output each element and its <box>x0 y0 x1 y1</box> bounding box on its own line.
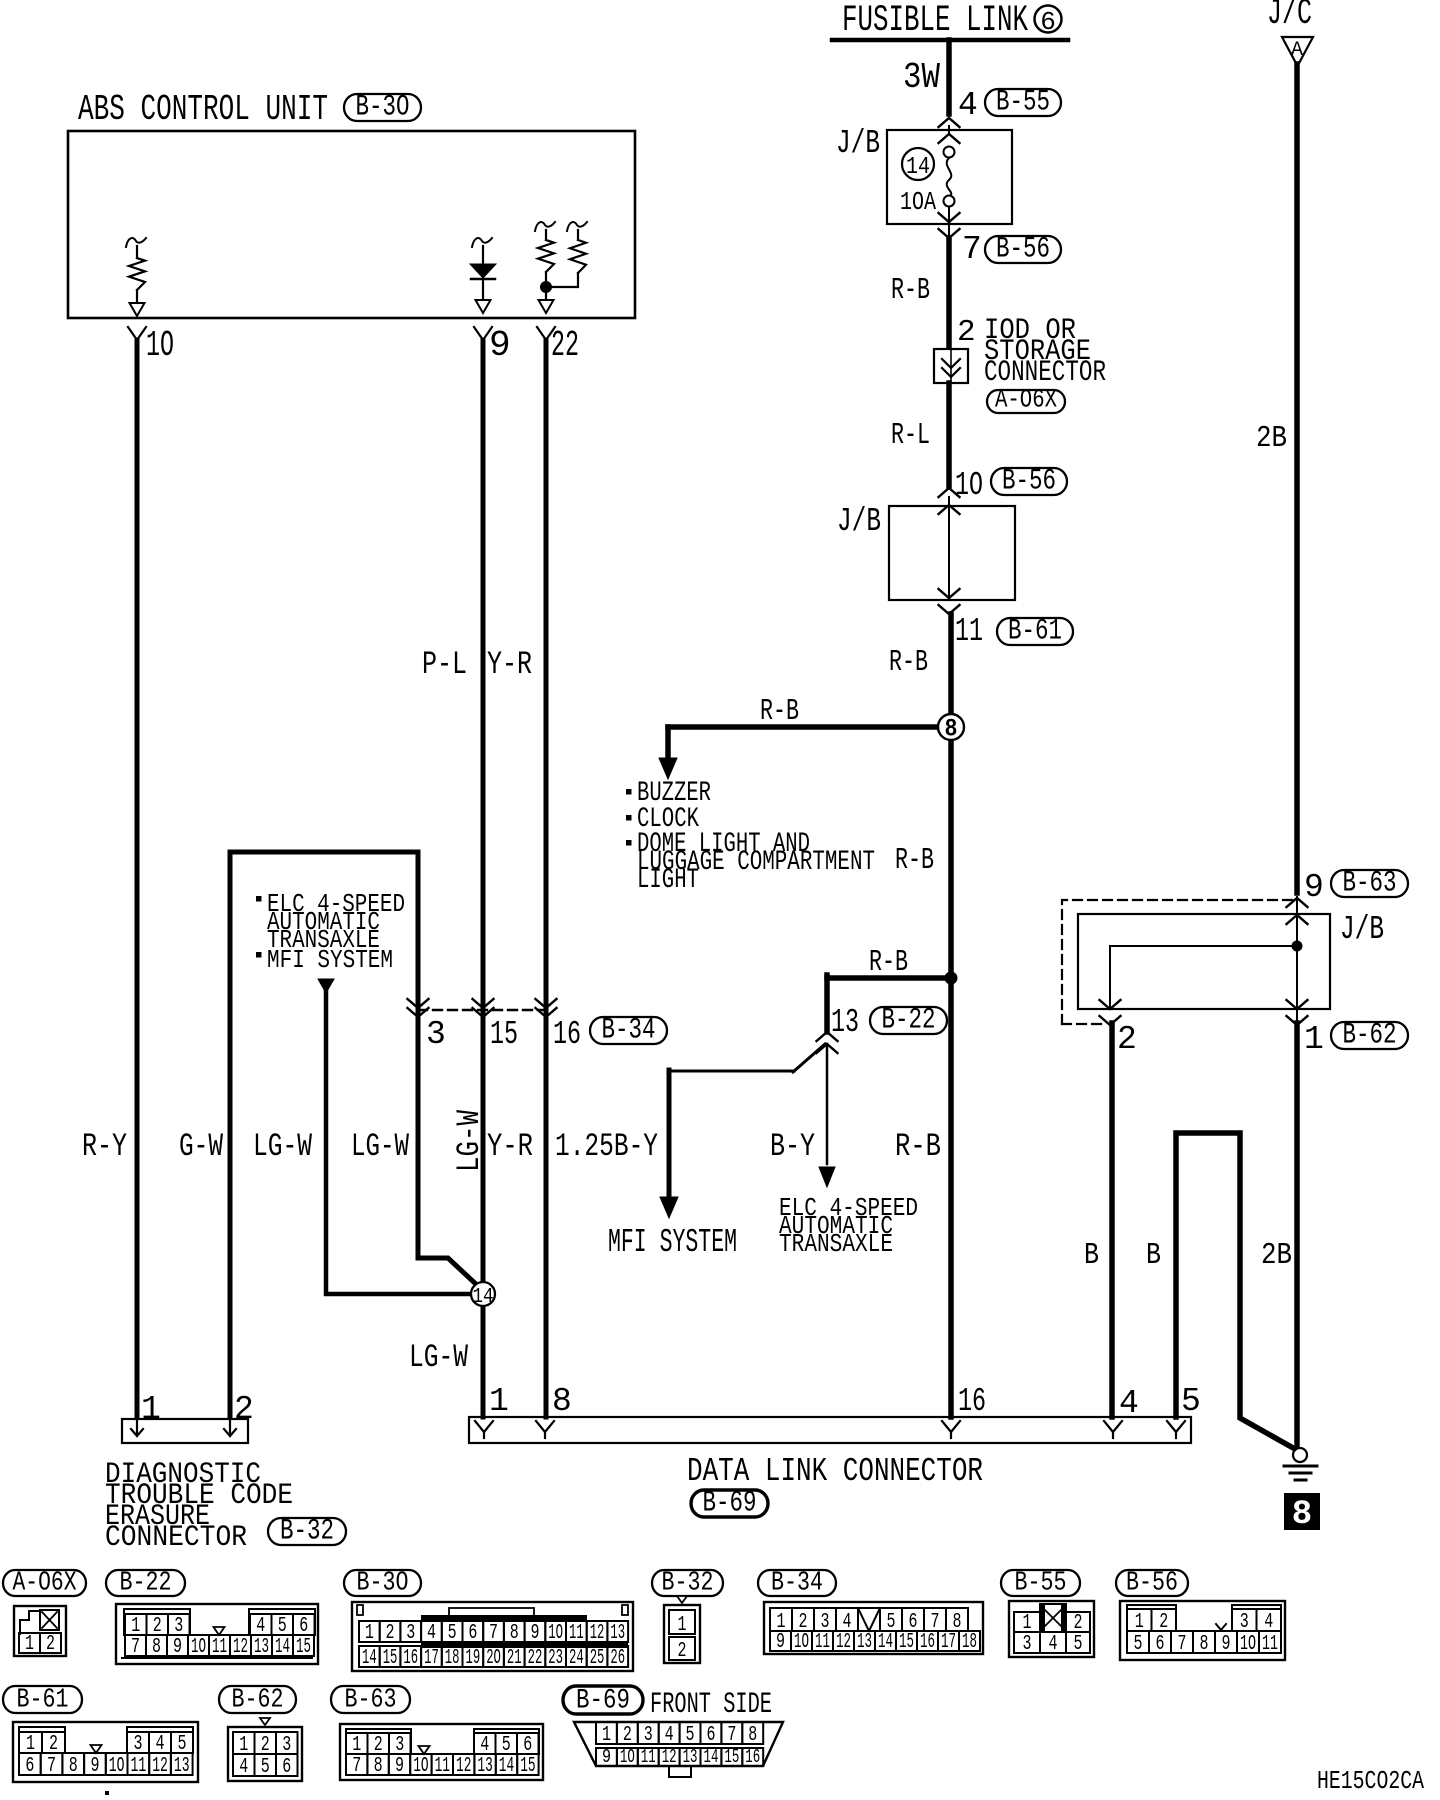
svg-text:R-B: R-B <box>895 843 934 878</box>
svg-text:15: 15 <box>724 1746 739 1768</box>
svg-text:HE15CO2CA: HE15CO2CA <box>1317 1766 1424 1796</box>
svg-text:5: 5 <box>1074 1633 1083 1656</box>
svg-text:B-56: B-56 <box>1126 1569 1178 1599</box>
connector callout B-32 <box>268 1518 346 1545</box>
svg-text:1OA: 1OA <box>900 187 936 217</box>
main vertical wire R-B to data link connector pin 16 <box>948 614 954 1417</box>
svg-text:26: 26 <box>610 1647 625 1670</box>
svg-text:R-B: R-B <box>891 273 930 308</box>
svg-text:B-69: B-69 <box>703 1487 757 1521</box>
svg-text:2: 2 <box>386 1622 395 1645</box>
svg-text:B-3O: B-3O <box>357 1569 409 1599</box>
ground point number 8 <box>1284 1493 1320 1530</box>
svg-text:8: 8 <box>69 1755 78 1778</box>
svg-text:J/C: J/C <box>1267 0 1312 34</box>
pinout B-56 callout <box>1116 1570 1188 1596</box>
pinout A-06X connector <box>14 1606 66 1656</box>
svg-text:16: 16 <box>958 1383 986 1420</box>
junction block J/B third <box>1078 914 1330 1009</box>
svg-text:1O: 1O <box>955 467 983 504</box>
connector B-61 pin 11 <box>939 589 960 598</box>
diode inside ABS pin 9 <box>472 238 492 247</box>
svg-text:4: 4 <box>427 1622 436 1645</box>
ELC MFI source list <box>256 896 262 902</box>
svg-text:B-22: B-22 <box>120 1569 172 1599</box>
wire R-L <box>946 383 952 487</box>
svg-text:9: 9 <box>90 1755 99 1778</box>
wire R-B <box>946 238 952 350</box>
svg-text:7: 7 <box>489 1622 498 1645</box>
connector callout B-30 <box>344 94 421 121</box>
diagnostic trouble code erasure connector box <box>122 1419 248 1443</box>
svg-text:13: 13 <box>174 1755 190 1778</box>
svg-text:B-22: B-22 <box>882 1004 936 1038</box>
connector B-63 pin 9 <box>1287 898 1308 907</box>
svg-text:5: 5 <box>448 1622 457 1645</box>
stray dot <box>105 1791 109 1795</box>
svg-text:4: 4 <box>958 87 978 124</box>
svg-text:11: 11 <box>569 1622 584 1645</box>
ground symbol <box>1293 1448 1307 1462</box>
svg-text:15: 15 <box>520 1755 535 1778</box>
svg-text:3W: 3W <box>903 57 940 98</box>
svg-text:CONNECTOR: CONNECTOR <box>105 1521 247 1555</box>
pinout B-30 callout <box>344 1570 421 1596</box>
svg-text:1O: 1O <box>548 1622 563 1645</box>
fuse 14 circle label <box>902 148 934 180</box>
svg-text:3: 3 <box>1023 1633 1032 1656</box>
svg-text:9: 9 <box>1304 869 1324 906</box>
svg-text:DATA LINK CONNECTOR: DATA LINK CONNECTOR <box>687 1453 983 1490</box>
svg-text:22: 22 <box>528 1647 543 1670</box>
branch wire R-B to buzzer clock dome light <box>668 724 939 730</box>
svg-text:LG-W: LG-W <box>409 1339 469 1376</box>
svg-text:6: 6 <box>468 1622 477 1645</box>
svg-text:22: 22 <box>551 325 579 366</box>
svg-text:2: 2 <box>678 1640 687 1663</box>
svg-text:9: 9 <box>173 1636 182 1659</box>
svg-text:B-63: B-63 <box>1343 867 1397 901</box>
svg-text:2: 2 <box>1117 1021 1137 1058</box>
svg-text:1.25B-Y: 1.25B-Y <box>555 1128 658 1165</box>
data link connector box <box>469 1417 1191 1443</box>
svg-text:1: 1 <box>365 1622 374 1645</box>
svg-text:13: 13 <box>610 1622 625 1645</box>
svg-text:LIGHT: LIGHT <box>637 865 699 896</box>
svg-text:2: 2 <box>234 1391 254 1428</box>
svg-text:13: 13 <box>254 1636 269 1659</box>
svg-text:B-34: B-34 <box>602 1014 656 1048</box>
svg-text:A-O6X: A-O6X <box>995 385 1057 415</box>
svg-text:14: 14 <box>499 1755 514 1778</box>
svg-text:3: 3 <box>426 1016 446 1053</box>
connector callout B-22 <box>870 1007 947 1034</box>
svg-text:21: 21 <box>507 1647 522 1670</box>
connector B-34 pin 3 <box>408 999 429 1008</box>
connector B-55 pin 4 <box>939 118 960 127</box>
connector B-62 pin 2 chevrons <box>1100 1000 1121 1009</box>
svg-text:B-32: B-32 <box>662 1569 714 1599</box>
connector B-34 pin 16 <box>536 999 557 1008</box>
svg-text:MFI SYSTEM: MFI SYSTEM <box>608 1224 737 1261</box>
svg-text:17: 17 <box>941 1631 956 1654</box>
wire 2B from J/C <box>1294 64 1300 893</box>
svg-text:11: 11 <box>212 1636 227 1659</box>
svg-text:6: 6 <box>282 1756 291 1779</box>
load list buzzer clock dome light <box>626 789 632 795</box>
connector callout A-06X <box>987 390 1065 413</box>
svg-text:5: 5 <box>1181 1383 1201 1420</box>
svg-text:6: 6 <box>25 1755 34 1778</box>
pinout B-22 callout <box>106 1570 185 1596</box>
svg-text:A-O6X: A-O6X <box>13 1569 77 1599</box>
svg-text:B-34: B-34 <box>771 1569 823 1599</box>
svg-text:1: 1 <box>141 1391 161 1428</box>
junction circle 14 <box>471 1282 495 1306</box>
connector callout B-55 <box>985 89 1061 116</box>
svg-text:B: B <box>1084 1238 1099 1273</box>
svg-text:13: 13 <box>857 1631 872 1654</box>
svg-text:5: 5 <box>1134 1633 1143 1656</box>
branch wire R-B to connector B-22 pin 13 <box>827 975 951 981</box>
svg-text:2B: 2B <box>1261 1238 1292 1273</box>
svg-text:4: 4 <box>1049 1633 1058 1656</box>
svg-text:1O: 1O <box>1240 1633 1256 1656</box>
ABS pin 9 <box>474 327 492 340</box>
connector callout B-34 <box>590 1017 667 1044</box>
svg-text:19: 19 <box>466 1647 481 1670</box>
pinout B-61 callout <box>3 1686 82 1713</box>
svg-text:1O: 1O <box>191 1636 206 1659</box>
connector B-56 pin 10 <box>939 488 960 497</box>
connector B-56 pin 7 <box>948 207 950 238</box>
svg-text:16: 16 <box>920 1631 935 1654</box>
wire P-L from ABS pin 9 <box>481 340 486 1417</box>
pinout B-61 connector <box>13 1722 198 1782</box>
svg-text:9: 9 <box>395 1755 404 1778</box>
wire 2B from J/B pin 1 to ground <box>1294 1023 1300 1448</box>
junction block J/B second <box>889 506 1015 600</box>
pinout B-62 callout <box>219 1686 296 1713</box>
pinout B-69 callout <box>563 1686 643 1714</box>
junction dot inside J/B <box>1292 941 1303 952</box>
svg-text:12: 12 <box>590 1622 605 1645</box>
svg-text:15: 15 <box>296 1636 311 1659</box>
svg-text:B-62: B-62 <box>1343 1019 1397 1053</box>
pinout B-69 connector <box>574 1722 783 1766</box>
svg-text:25: 25 <box>590 1647 605 1670</box>
svg-text:11: 11 <box>955 613 983 650</box>
pinout B-62 connector <box>228 1727 302 1781</box>
arrow to buzzer circuits <box>665 727 671 762</box>
svg-text:4: 4 <box>239 1756 248 1779</box>
svg-text:12: 12 <box>662 1746 677 1768</box>
svg-text:R-B: R-B <box>895 1128 941 1165</box>
pinout B-34 callout <box>758 1570 836 1596</box>
connector callout B-56 <box>985 236 1061 263</box>
svg-text:13: 13 <box>683 1746 698 1768</box>
svg-text:R-B: R-B <box>760 694 799 729</box>
pinout B-55 callout <box>1001 1570 1080 1596</box>
fusible link bus bar <box>832 38 1068 43</box>
svg-text:1O: 1O <box>146 325 174 366</box>
svg-text:14: 14 <box>362 1647 377 1670</box>
pinout B-30 connector <box>352 1602 633 1671</box>
svg-text:R-L: R-L <box>891 418 930 453</box>
wire B from J/B pin 2 to data link pin 4 <box>1109 1023 1115 1417</box>
svg-text:11: 11 <box>1262 1633 1278 1656</box>
svg-text:1O: 1O <box>413 1755 428 1778</box>
svg-text:1: 1 <box>489 1383 509 1420</box>
connector B-34 dashed line <box>418 1009 545 1011</box>
svg-text:8: 8 <box>152 1636 161 1659</box>
svg-text:J/B: J/B <box>836 125 880 162</box>
wire R-Y from ABS pin 10 <box>135 340 140 1417</box>
svg-text:1O: 1O <box>794 1631 809 1654</box>
svg-text:15: 15 <box>899 1631 914 1654</box>
svg-text:24: 24 <box>569 1647 584 1670</box>
pinout B-56 connector <box>1120 1601 1285 1660</box>
svg-text:2B: 2B <box>1256 421 1287 456</box>
svg-text:8: 8 <box>510 1622 519 1645</box>
svg-text:7: 7 <box>352 1755 361 1778</box>
svg-text:15: 15 <box>490 1016 518 1053</box>
svg-text:7: 7 <box>1178 1633 1187 1656</box>
pinout B-63 callout <box>331 1686 410 1713</box>
svg-text:B-Y: B-Y <box>770 1128 815 1165</box>
connector callout B-63 <box>1331 870 1408 897</box>
svg-text:1: 1 <box>25 1633 34 1656</box>
wire inside J/B third <box>1296 897 1298 1026</box>
svg-text:11: 11 <box>641 1746 656 1768</box>
svg-text:12: 12 <box>456 1755 471 1778</box>
svg-text:B-62: B-62 <box>232 1686 284 1716</box>
svg-text:B-56: B-56 <box>996 233 1050 267</box>
svg-text:8: 8 <box>1200 1633 1209 1656</box>
svg-text:FRONT SIDE: FRONT SIDE <box>650 1688 772 1722</box>
connector B-62 pin 1 chevrons <box>1287 1000 1308 1009</box>
svg-text:5: 5 <box>261 1756 270 1779</box>
svg-text:B-55: B-55 <box>1015 1569 1067 1599</box>
resistor pair inside ABS pin 22 <box>535 222 555 231</box>
svg-text:A: A <box>1291 39 1303 62</box>
dashed junction block boundary <box>1062 900 1295 1024</box>
svg-text:1O: 1O <box>620 1746 635 1768</box>
svg-text:9: 9 <box>489 325 511 366</box>
svg-text:J/B: J/B <box>837 503 881 540</box>
connector B-34 pin 15 <box>473 999 494 1008</box>
svg-text:8: 8 <box>1292 1496 1312 1534</box>
source arrow into wire LG-W <box>318 979 334 993</box>
svg-text:9: 9 <box>602 1746 611 1768</box>
junction block J/B (fuse box) <box>887 130 1012 224</box>
svg-text:B-61: B-61 <box>1008 615 1062 649</box>
svg-text:7: 7 <box>962 231 982 268</box>
svg-text:7: 7 <box>47 1755 56 1778</box>
svg-text:16: 16 <box>745 1746 760 1768</box>
svg-text:R-Y: R-Y <box>82 1128 127 1165</box>
svg-text:Y-R: Y-R <box>487 1128 533 1165</box>
pinout B-22 connector <box>116 1604 318 1664</box>
svg-text:2: 2 <box>957 315 976 350</box>
wire LG-W from source to junction 14 <box>326 991 472 1294</box>
resistor inside ABS pin 10 <box>126 238 146 247</box>
svg-text:B-61: B-61 <box>17 1686 69 1716</box>
wire through J/B <box>948 497 950 600</box>
svg-text:2O: 2O <box>486 1647 501 1670</box>
svg-text:13: 13 <box>477 1755 492 1778</box>
svg-text:R-B: R-B <box>869 945 908 980</box>
svg-text:12: 12 <box>836 1631 851 1654</box>
svg-text:J/B: J/B <box>1340 911 1384 948</box>
bridge wire G-W <box>230 852 479 1417</box>
svg-text:R-B: R-B <box>889 645 928 680</box>
connector callout B-56 second <box>991 468 1067 495</box>
svg-text:11: 11 <box>435 1755 450 1778</box>
svg-text:B-56: B-56 <box>1002 465 1056 499</box>
svg-text:1: 1 <box>678 1614 687 1637</box>
svg-text:16: 16 <box>403 1647 418 1670</box>
junction dot resistors <box>541 282 552 293</box>
pinout B-55 connector <box>1009 1601 1094 1657</box>
svg-text:B-32: B-32 <box>280 1515 334 1549</box>
svg-text:12: 12 <box>152 1755 168 1778</box>
svg-text:LG-W: LG-W <box>253 1128 313 1165</box>
junction 8 circle <box>938 714 964 740</box>
svg-text:15: 15 <box>383 1647 398 1670</box>
svg-text:2: 2 <box>46 1633 55 1656</box>
svg-text:Y-R: Y-R <box>487 646 532 683</box>
svg-text:MFI SYSTEM: MFI SYSTEM <box>267 945 393 975</box>
connector callout B-69 <box>691 1490 768 1517</box>
svg-text:9: 9 <box>776 1631 785 1654</box>
connector callout B-61 <box>997 618 1073 645</box>
junction dot on main wire <box>945 972 957 984</box>
svg-text:FUSIBLE LINK: FUSIBLE LINK <box>842 0 1029 42</box>
svg-text:12: 12 <box>233 1636 248 1659</box>
pinout B-32 callout <box>652 1570 723 1596</box>
svg-text:1: 1 <box>1304 1021 1324 1058</box>
svg-text:11: 11 <box>815 1631 830 1654</box>
svg-text:G-W: G-W <box>179 1128 224 1165</box>
svg-text:3: 3 <box>406 1622 415 1645</box>
wire 3W from fusible link <box>946 40 952 114</box>
wire B data link pin 5 loop to ground <box>1176 1133 1295 1449</box>
svg-text:18: 18 <box>962 1631 977 1654</box>
svg-text:18: 18 <box>445 1647 460 1670</box>
connector callout B-62 <box>1331 1022 1408 1049</box>
ABS pin 10 <box>128 327 146 340</box>
pinout B-63 connector <box>340 1724 543 1780</box>
svg-text:14: 14 <box>878 1631 893 1654</box>
wire Y-R from ABS pin 22 <box>544 340 549 1417</box>
svg-text:8: 8 <box>374 1755 383 1778</box>
svg-text:TRANSAXLE: TRANSAXLE <box>779 1229 893 1259</box>
svg-text:LG-W: LG-W <box>451 1109 488 1172</box>
MFI system branch wire 1.25B-Y <box>669 1070 794 1073</box>
svg-text:9: 9 <box>1222 1633 1231 1656</box>
svg-text:B-3O: B-3O <box>356 91 410 125</box>
svg-text:B-69: B-69 <box>576 1686 630 1717</box>
pinout B-34 connector <box>764 1602 983 1654</box>
svg-text:8: 8 <box>552 1383 572 1420</box>
svg-text:11: 11 <box>131 1755 147 1778</box>
svg-text:14: 14 <box>906 154 930 181</box>
wire B-Y to ELC transaxle <box>826 1044 829 1164</box>
svg-text:14: 14 <box>473 1286 494 1309</box>
connector B-22 pin 13 chevrons <box>817 1032 838 1041</box>
svg-text:6: 6 <box>1040 7 1056 37</box>
svg-text:14: 14 <box>275 1636 290 1659</box>
fuse element 10A <box>944 147 955 158</box>
svg-text:1O: 1O <box>109 1755 125 1778</box>
svg-text:B-63: B-63 <box>345 1686 397 1716</box>
svg-text:8: 8 <box>945 715 958 744</box>
svg-text:6: 6 <box>1156 1633 1165 1656</box>
svg-text:23: 23 <box>548 1647 563 1670</box>
ABS pin 22 <box>537 327 555 340</box>
pinout A-06X callout <box>3 1570 86 1596</box>
svg-text:16: 16 <box>553 1016 581 1053</box>
svg-text:7: 7 <box>131 1636 140 1659</box>
svg-text:B: B <box>1146 1238 1161 1273</box>
svg-text:ABS CONTROL UNIT: ABS CONTROL UNIT <box>78 89 328 130</box>
svg-text:17: 17 <box>424 1647 439 1670</box>
svg-text:14: 14 <box>704 1746 719 1768</box>
svg-text:LG-W: LG-W <box>351 1128 410 1165</box>
svg-text:13: 13 <box>831 1004 859 1041</box>
svg-text:P-L: P-L <box>422 646 467 683</box>
pinout B-32 connector <box>664 1605 700 1663</box>
ABS control unit box <box>68 131 635 318</box>
svg-text:B-55: B-55 <box>996 86 1050 120</box>
svg-text:9: 9 <box>530 1622 539 1645</box>
